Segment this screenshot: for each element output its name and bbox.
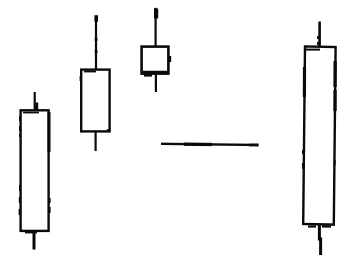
candle 3 lower shadow: [155, 74, 157, 92]
candle 2 lower shadow: [94, 132, 96, 152]
candle 2 upper shadow: [94, 15, 98, 70]
candle 1 upper shadow: [35, 92, 38, 111]
candle 3 body: [142, 47, 172, 77]
candle 3 upper shadow: [154, 8, 158, 47]
candle 1 body: [19, 110, 51, 233]
candle 5 lower shadow: [319, 225, 320, 255]
doji dash line: [161, 144, 259, 145]
candle 1 lower shadow: [33, 231, 36, 250]
candle 5 upper shadow: [317, 22, 320, 49]
candle 2 body: [80, 70, 110, 133]
candle 5 body: [302, 46, 336, 227]
